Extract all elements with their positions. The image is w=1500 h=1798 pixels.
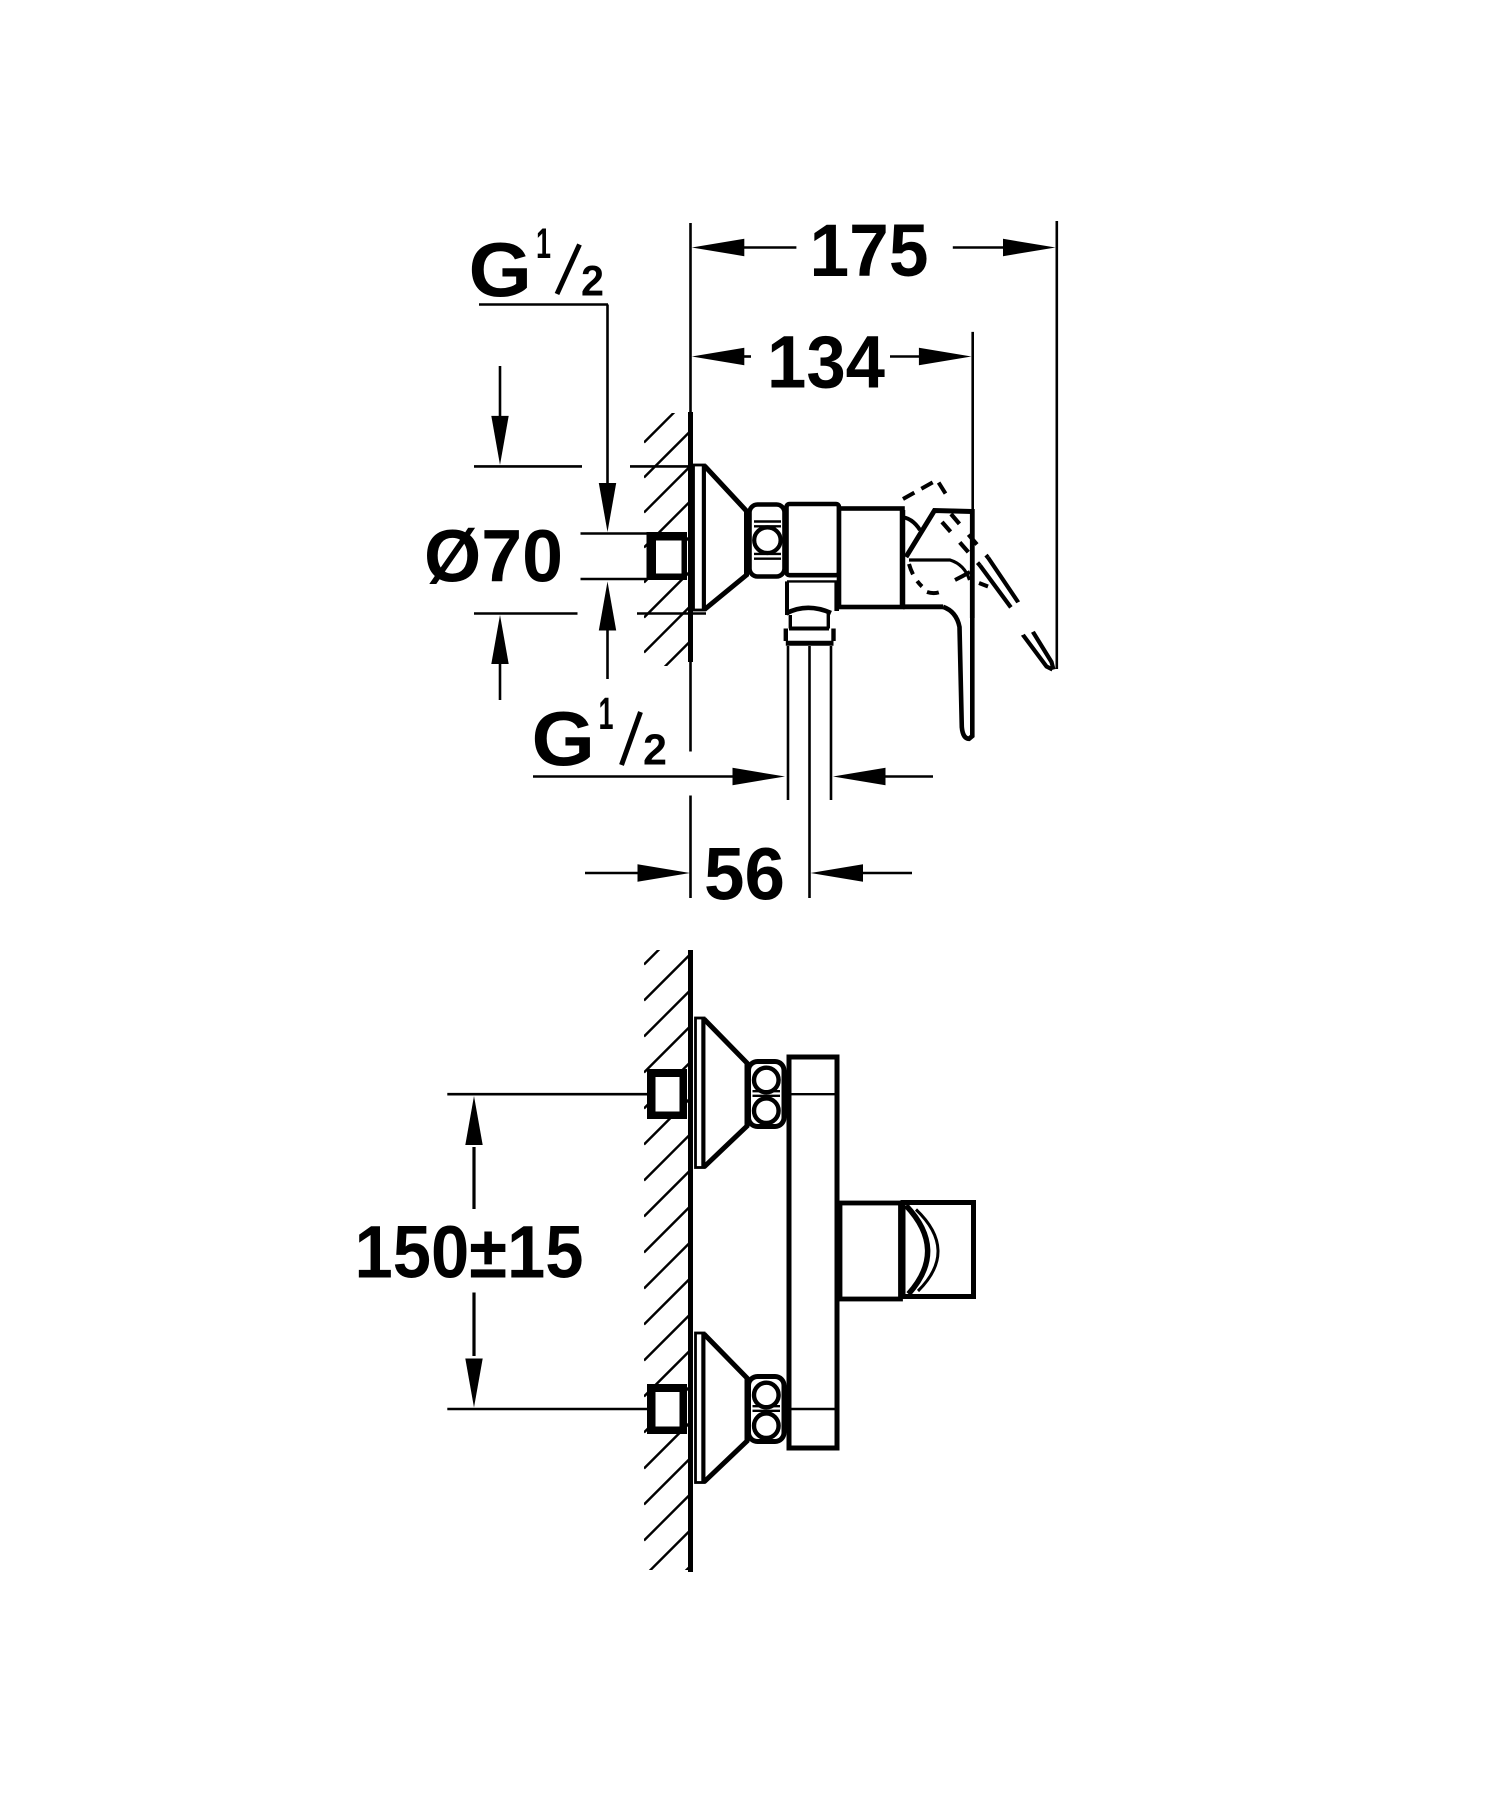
wall hatching (top view) (644, 396, 691, 723)
extension line x=1057 (175) (1056, 221, 1059, 669)
leader lines to inlet square (581, 534, 648, 580)
lever blade alt position (dashed) (942, 514, 1054, 670)
outlet collar (786, 581, 837, 615)
wall line (bottom view) (688, 950, 693, 1572)
svg-text:56: 56 (704, 833, 785, 916)
shower hose (788, 646, 831, 800)
extension line at wall x=690 (689, 223, 692, 898)
lower union hex nut (bottom view) (749, 1377, 785, 1442)
escutcheon cone (top view) (704, 465, 747, 610)
svg-text:134: 134 (767, 321, 886, 404)
arrow below square (606, 629, 609, 679)
hose nut (786, 629, 834, 644)
union hex nut (top view) (750, 505, 785, 577)
label G 1/2 (top, wall inlet thread) (469, 220, 605, 314)
svg-text:G: G (532, 697, 596, 783)
svg-text:1: 1 (599, 688, 614, 739)
knob lever-end arcs (906, 1206, 938, 1295)
valve body sleeve (top view) (787, 504, 840, 575)
wall hatching (bottom view) (644, 918, 691, 1613)
leader/dim G1/2 bottom (533, 775, 933, 778)
sleeve joint line (787, 580, 838, 582)
plate axis lines (792, 1094, 835, 1409)
hose axis extension (56) (808, 646, 811, 898)
extension line x=972 (134) (971, 332, 974, 509)
outlet neck (789, 612, 829, 629)
svg-text:2: 2 (643, 725, 667, 774)
dim 150 line + arrows (472, 1147, 475, 1356)
label G 1/2 (bottom, hose thread) (532, 688, 668, 783)
svg-text:2: 2 (581, 258, 604, 306)
handle adapter (bottom view) (840, 1203, 901, 1299)
lower escutcheon cone (bottom view) (703, 1333, 747, 1483)
handle alt position (dashed outline) (903, 480, 988, 593)
body plate (bottom view) (789, 1057, 837, 1448)
upper union hex nut (bottom view) (749, 1062, 785, 1127)
dim 134 (744, 355, 921, 358)
svg-text:175: 175 (810, 209, 929, 292)
valve body cartridge section (top view) (839, 509, 903, 608)
svg-text:1: 1 (536, 220, 551, 268)
inlet square fitting (top view) (647, 532, 688, 580)
handle lever (solid, top view) (903, 607, 972, 739)
dim O70 arrows (499, 366, 502, 700)
upper escutcheon cone (bottom view) (703, 1018, 747, 1168)
lower escutcheon plate (bottom view) (696, 1333, 705, 1483)
dim 150 extension lines (447, 1094, 648, 1409)
lower inlet square (bottom view) (647, 1384, 687, 1434)
handle head (solid, top view) (901, 509, 973, 618)
svg-text:G: G (469, 228, 533, 314)
svg-text:Ø70: Ø70 (424, 515, 563, 598)
upper escutcheon plate (bottom view) (696, 1018, 705, 1168)
dim O70 extension lines (474, 466, 706, 613)
svg-text:150±15: 150±15 (355, 1211, 584, 1294)
handle knob (bottom view) (903, 1203, 974, 1297)
upper inlet square (bottom view) (647, 1069, 687, 1119)
escutcheon plate (top view) (694, 465, 705, 610)
leader G1/2 top (479, 305, 608, 485)
dim 56 (585, 872, 912, 875)
wall line (top view) (688, 412, 693, 662)
dim 175 (744, 246, 1006, 249)
